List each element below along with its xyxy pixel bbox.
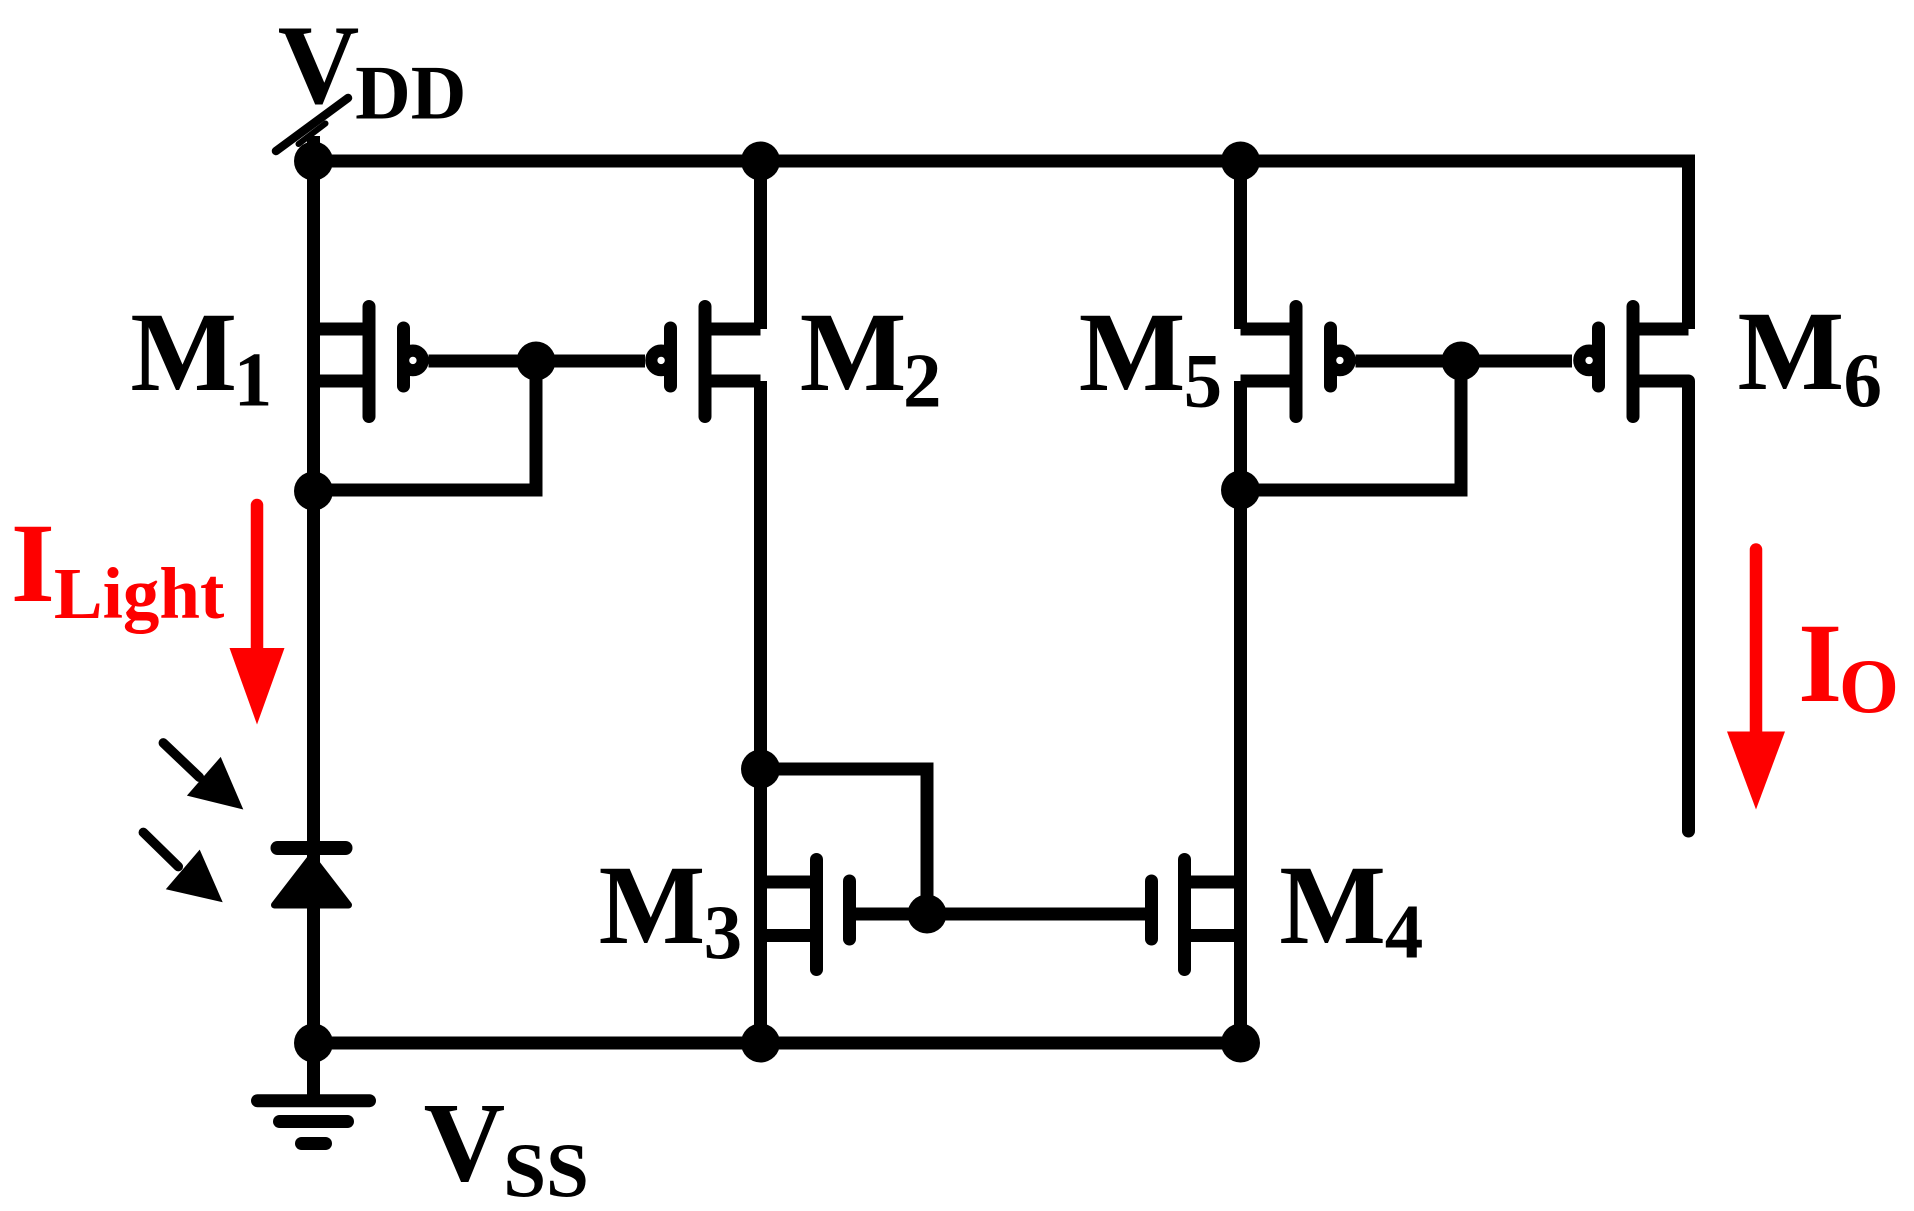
wire: column C (M5/M4 branch from rail to VSS rail)	[1234, 161, 1247, 329]
light arrow 1	[163, 743, 243, 810]
wire	[1234, 381, 1247, 1043]
label M4	[1279, 843, 1423, 974]
transistor M5 (PMOS, diode-connected)	[1241, 307, 1573, 417]
svg-text:V: V	[424, 1081, 506, 1206]
svg-text:1: 1	[234, 337, 273, 423]
label M6	[1738, 289, 1883, 423]
svg-text:O: O	[1839, 643, 1899, 729]
ground symbol	[258, 1043, 370, 1144]
transistor M3 (NMOS, diode-connected)	[761, 860, 1152, 970]
label M2	[800, 290, 942, 423]
current arrow I_O (red)	[1727, 550, 1785, 810]
junction node: VDD at A	[294, 142, 333, 181]
junction node: VDD at B	[741, 142, 780, 181]
junction node: M1 gate tie	[517, 342, 556, 381]
junction node: VSS at A	[294, 1024, 333, 1063]
svg-text:M: M	[1079, 290, 1186, 415]
junction node: M1 drain / photodiode	[294, 472, 333, 511]
wire: VSS bottom rail	[314, 1037, 1241, 1050]
label M5	[1079, 290, 1222, 423]
svg-text:I: I	[11, 501, 55, 626]
wire: column A (M1 source from rail, drain down through photodiode to VSS rail)	[307, 161, 320, 1043]
transistor M1 (PMOS, diode-connected)	[314, 307, 646, 417]
svg-text:2: 2	[903, 337, 942, 423]
junction node: M5 drain	[1221, 471, 1260, 510]
svg-text:5: 5	[1184, 337, 1223, 423]
svg-text:M: M	[800, 290, 907, 415]
svg-text:M: M	[1738, 289, 1845, 414]
current arrow I_Light (red)	[230, 505, 285, 725]
label I_Light (red)	[11, 501, 224, 634]
power symbol VDD slash	[276, 98, 348, 151]
transistor M4 (NMOS mirror of M3)	[1152, 860, 1241, 970]
wire: VDD top rail from node A across to M6 drop	[314, 161, 1689, 329]
wire: M5 gate-drain tie	[1241, 361, 1462, 490]
light arrow 2	[143, 832, 222, 902]
label M3	[599, 843, 743, 975]
gate bubble of M5	[1330, 351, 1350, 371]
wire: column B (M2/M3 branch from rail to VSS rail)	[754, 161, 767, 329]
label M1	[130, 290, 272, 423]
junction node: VDD at C	[1221, 142, 1260, 181]
svg-text:M: M	[1279, 843, 1386, 968]
junction node: M5 gate tie	[1442, 342, 1481, 381]
svg-text:V: V	[278, 3, 360, 128]
transistor M6 (PMOS output mirror)	[1599, 307, 1689, 417]
wire	[754, 381, 767, 1043]
svg-text:4: 4	[1385, 888, 1424, 974]
junction node: M3 drain	[741, 750, 780, 789]
svg-text:DD: DD	[355, 50, 466, 136]
svg-text:SS: SS	[503, 1127, 589, 1211]
gate bubble of M2	[651, 351, 671, 371]
gate bubble of M1	[403, 351, 423, 371]
svg-text:M: M	[130, 290, 237, 415]
svg-text:3: 3	[704, 889, 743, 975]
label I_O (red)	[1798, 601, 1899, 729]
photodiode D1	[275, 848, 349, 905]
gate bubble of M6	[1579, 351, 1599, 371]
transistor M2 (PMOS mirror of M1)	[671, 307, 761, 417]
junction node: VSS at C	[1221, 1024, 1260, 1063]
svg-text:M: M	[599, 843, 706, 968]
svg-text:I: I	[1798, 601, 1842, 726]
wire: VDD stub above node A	[307, 136, 320, 161]
wire: M3 gate-drain tie	[761, 769, 928, 914]
wire: M1 gate-drain tie	[314, 361, 537, 490]
junction node: M3 gate tie	[908, 895, 947, 934]
junction node: VSS at B	[741, 1024, 780, 1063]
svg-text:6: 6	[1844, 337, 1883, 423]
label VDD	[278, 3, 467, 136]
svg-text:Light: Light	[54, 553, 224, 634]
wire: M6 drain output line	[1682, 381, 1695, 831]
label VSS	[424, 1081, 589, 1211]
